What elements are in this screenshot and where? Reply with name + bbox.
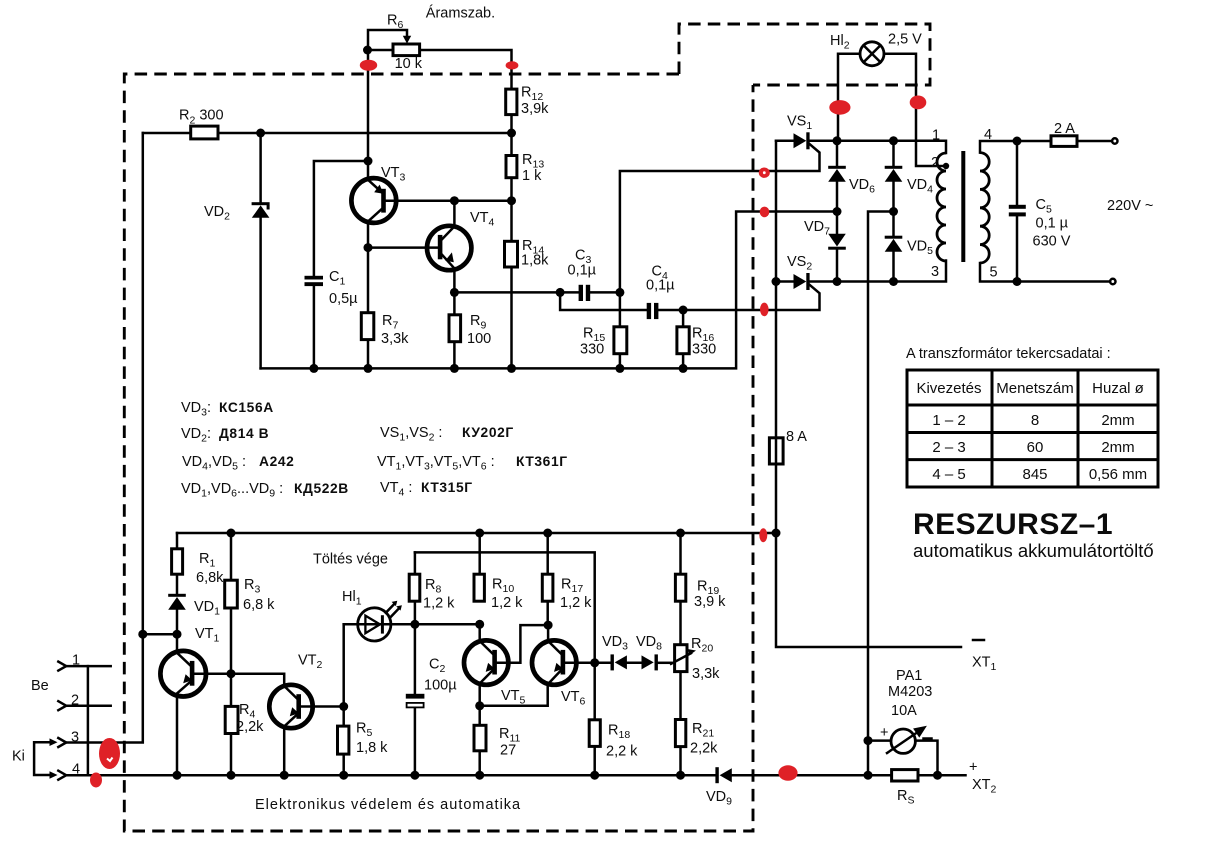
transformer T1 secondary winding (pins 4-5) <box>980 153 989 263</box>
svg-text:КТ361Г: КТ361Г <box>516 454 568 469</box>
resistor R21 <box>675 720 685 747</box>
wire VT3 emitter rail <box>367 50 370 180</box>
resistor R8 <box>409 574 420 601</box>
svg-text:PA1: PA1 <box>896 668 922 684</box>
wire R6 left terminal <box>368 49 393 52</box>
wire R1 column <box>176 533 179 594</box>
red mark: VD6-VD7 line <box>760 207 770 218</box>
wire VD2 branch <box>259 133 262 202</box>
red mark: VD9 output <box>778 765 797 780</box>
node VT1 base/R4 <box>227 669 236 678</box>
svg-text:8: 8 <box>1031 412 1039 429</box>
svg-text:3: 3 <box>931 264 939 280</box>
svg-text:6,8 k: 6,8 k <box>243 597 275 613</box>
node R12 bottom <box>507 129 516 138</box>
node VD7 bottom <box>833 277 842 286</box>
node bus R18 <box>590 771 599 780</box>
mains terminal top <box>1112 138 1117 143</box>
resistor R19 <box>675 574 685 601</box>
transistor VT3 (PNP, emitter up) <box>351 178 396 223</box>
ammeter PA1 <box>887 726 927 754</box>
diode VD1 <box>168 594 186 610</box>
node C1 ground <box>309 364 318 373</box>
wire R20 to R21 <box>679 672 682 776</box>
resistor R9 <box>449 315 461 342</box>
capacitor C3 <box>579 285 591 301</box>
transistor VT2 (PNP) <box>269 685 312 728</box>
transformer data table <box>907 370 1158 487</box>
wire connector common bus <box>87 666 90 775</box>
node C1 branch <box>364 157 373 166</box>
trimmer R20 <box>671 645 696 672</box>
svg-text:2mm: 2mm <box>1101 412 1134 429</box>
node emitters/R11 <box>475 701 484 710</box>
svg-text:automatikus akkumulátortöltő: automatikus akkumulátortöltő <box>913 540 1154 561</box>
wire VT1 emitter lead <box>176 695 179 776</box>
svg-text:1,2 k: 1,2 k <box>423 596 455 612</box>
wire C2 bottom lead <box>414 707 417 775</box>
svg-text:0,56 mm: 0,56 mm <box>1089 466 1147 483</box>
diode VD7 <box>828 234 846 250</box>
node bus VT2 <box>280 771 289 780</box>
svg-text:2,5 V: 2,5 V <box>888 32 922 48</box>
capacitor C1 <box>305 276 324 286</box>
node VD4-VD5 <box>889 207 898 216</box>
wire VT5 base link <box>495 625 548 663</box>
svg-text:A transzformátor tekercsadatai: A transzformátor tekercsadatai : <box>906 346 1111 362</box>
svg-text:VD3:: VD3: <box>181 400 211 419</box>
svg-text:3,9 k: 3,9 k <box>694 594 726 610</box>
wire VD6-VD7 junction <box>836 182 839 234</box>
wire PA1 right lead <box>915 741 937 776</box>
wire rectifier bottom bus <box>810 261 946 282</box>
resistor R5 <box>338 726 349 754</box>
wire C1 bottom lead <box>313 286 316 368</box>
node transformer tap 2 <box>943 163 949 169</box>
wire pin 4 / battery minus bus <box>66 774 715 777</box>
svg-text:Elektronikus védelem és automa: Elektronikus védelem és automatika <box>255 797 521 813</box>
wire VD5 anode lead <box>892 252 895 282</box>
node C3 output <box>615 288 624 297</box>
svg-text:4 – 5: 4 – 5 <box>932 466 965 483</box>
svg-text:0,5µ: 0,5µ <box>329 291 358 307</box>
connector pin chevrons Be/Ki <box>58 662 66 671</box>
node VD1 anode <box>173 630 182 639</box>
wire R19 column <box>679 533 682 645</box>
resistor R7 <box>361 313 374 340</box>
wire Rs to XT2 <box>918 774 966 777</box>
potentiometer R6 (Aramszab. 10k) <box>393 36 420 56</box>
wire R6 right terminal to R12 <box>420 50 512 89</box>
wire VS2 anode lead <box>776 280 794 283</box>
svg-text:1 k: 1 k <box>522 168 542 184</box>
wire VT6 collector lead <box>547 625 550 640</box>
node bus R11 <box>475 771 484 780</box>
node R14 ground <box>507 364 516 373</box>
resistor R4 <box>225 706 238 733</box>
wire C4 input <box>560 292 647 310</box>
wire protection supply bus <box>177 532 776 535</box>
svg-text:0,1 µ: 0,1 µ <box>1036 216 1069 232</box>
transistor VT4 (NPN, base left) <box>427 226 471 270</box>
svg-text:+: + <box>880 725 888 741</box>
wire VD3 feed <box>595 662 611 665</box>
svg-text:10 k: 10 k <box>395 56 423 72</box>
wire VS2 gate line <box>658 285 819 310</box>
svg-text:1,8 k: 1,8 k <box>356 740 388 756</box>
svg-text:1: 1 <box>932 128 940 144</box>
wire VD2 anode to ground bus <box>259 218 262 368</box>
node VT2 base/R5 <box>339 702 348 711</box>
wire transformer pin 5 lead <box>980 263 1110 282</box>
wire R6 wiper loop <box>368 30 407 50</box>
wire C5 column <box>1016 141 1019 205</box>
svg-text:3,3k: 3,3k <box>381 331 409 347</box>
svg-text:RESZURSZ–1: RESZURSZ–1 <box>913 508 1113 541</box>
node VT4 emitter <box>450 288 459 297</box>
LED Hl1 <box>358 601 402 641</box>
svg-text:27: 27 <box>500 743 516 759</box>
svg-text:2,2 k: 2,2 k <box>606 744 638 760</box>
node VD6 top <box>833 136 842 145</box>
fuse 8A <box>769 438 783 464</box>
wire VT3 base line <box>385 199 512 202</box>
wire R12-R13-R14 column <box>510 115 513 369</box>
node VT3 collector <box>364 243 373 252</box>
wire VD3-VD8 link <box>628 662 642 665</box>
svg-text:2,2k: 2,2k <box>236 719 264 735</box>
wire VD8 to R20 <box>658 662 671 665</box>
wire VT3 collector <box>367 222 370 248</box>
node VD5 bottom <box>889 277 898 286</box>
red mark: R6 right branch <box>506 61 519 69</box>
svg-text:Áramszab.: Áramszab. <box>426 5 495 22</box>
svg-text:VT4 :: VT4 : <box>380 480 412 499</box>
wire ground bus of pulse shaper <box>261 212 837 369</box>
svg-text:0,1µ: 0,1µ <box>568 263 597 279</box>
wire Hl1 lead through <box>344 623 389 626</box>
node C4 output <box>679 306 688 315</box>
wire positive line to bus <box>867 741 870 776</box>
node bus R4 <box>227 771 236 780</box>
resistor R18 <box>589 720 600 747</box>
svg-text:2mm: 2mm <box>1101 439 1134 456</box>
svg-text:КС156А: КС156А <box>219 400 274 415</box>
node R16 ground <box>679 364 688 373</box>
node C3 input <box>556 288 565 297</box>
diode VD3 <box>611 654 627 670</box>
resistor R11 <box>474 725 486 751</box>
diode VD9 <box>715 767 731 783</box>
wire VT2 emitter lead <box>283 728 286 776</box>
svg-text:630 V: 630 V <box>1033 234 1071 250</box>
electrolytic capacitor C2 <box>406 694 425 708</box>
Ki arrows <box>50 738 58 746</box>
wire Ki bracket <box>34 742 53 775</box>
svg-text:100: 100 <box>467 331 491 347</box>
svg-text:3: 3 <box>71 730 79 746</box>
wire R4 column <box>230 674 233 776</box>
svg-text:3,9k: 3,9k <box>521 101 549 117</box>
red mark: Hl2 left <box>829 100 850 115</box>
resistor R3 <box>225 580 238 608</box>
node R15 ground <box>615 364 624 373</box>
resistor R1 <box>172 549 183 574</box>
node VS2 anode <box>772 277 781 286</box>
wire VD4 cathode lead <box>892 141 895 166</box>
wire R11 column <box>478 706 481 775</box>
wire R17 column <box>546 533 549 574</box>
svg-text:Kivezetés: Kivezetés <box>916 380 981 397</box>
wire C3 to R15 node <box>590 291 620 294</box>
thyristor VS2 <box>794 273 810 290</box>
svg-text:R2 300: R2 300 <box>179 108 224 127</box>
wire C2 top lead <box>414 624 417 694</box>
node bus C2 <box>410 771 419 780</box>
signal lamp Hl2 <box>860 42 884 66</box>
wire R15 column <box>619 292 622 368</box>
wire bus VD9 to Rs <box>732 774 892 777</box>
wire rectifier top bus <box>810 141 946 153</box>
fuse 2A <box>1051 136 1077 147</box>
diode VD8 <box>642 654 658 670</box>
node VT4 collector <box>450 196 459 205</box>
red mark: VS2 gate <box>760 303 769 317</box>
node R9 ground <box>450 364 459 373</box>
wire cross-coupling bracket R8 to VT6 base <box>415 552 595 662</box>
red mark: VS1 gate <box>759 168 770 178</box>
wire R2 left lead <box>143 132 191 135</box>
label XT1 <box>973 639 984 642</box>
node R17 top <box>543 529 552 538</box>
wire R2 right to R12/R13 node <box>218 132 512 135</box>
node C5 bottom <box>1013 277 1022 286</box>
node R19 top <box>676 529 685 538</box>
svg-text:330: 330 <box>692 342 716 358</box>
svg-text:А242: А242 <box>259 454 294 469</box>
wire transformer pin 4 lead <box>980 141 1051 153</box>
svg-text:5: 5 <box>990 265 998 281</box>
node R13 bottom <box>507 196 516 205</box>
resistor R15 <box>614 327 627 354</box>
svg-text:100µ: 100µ <box>424 678 457 694</box>
wire VT4 emitter <box>453 270 456 293</box>
node bus R5 <box>339 771 348 780</box>
svg-text:КУ202Г: КУ202Г <box>462 425 514 440</box>
red mark: pin 3 blob <box>99 738 120 769</box>
svg-text:2 A: 2 A <box>1054 121 1075 137</box>
resistor R17 <box>542 574 553 601</box>
wire pin 1 line <box>66 665 110 668</box>
resistor R16 <box>677 327 689 354</box>
wire VT6 base lead <box>564 662 595 665</box>
svg-text:Be: Be <box>31 678 49 694</box>
svg-text:1 – 2: 1 – 2 <box>932 412 965 429</box>
svg-text:845: 845 <box>1022 466 1047 483</box>
node R8 bottom <box>410 620 419 629</box>
svg-text:+: + <box>969 760 977 776</box>
wire R9 column <box>453 292 456 368</box>
svg-text:2: 2 <box>931 155 939 171</box>
node R3 top <box>227 529 236 538</box>
wire VT2 base lead <box>300 705 344 708</box>
node VD2 top <box>256 129 265 138</box>
svg-text:Huzal ø: Huzal ø <box>1092 380 1144 397</box>
svg-text:КД522В: КД522В <box>294 481 349 496</box>
transformer T1 primary winding (pins 1-2-3) <box>937 153 946 261</box>
diode VD4 <box>885 166 903 182</box>
transformer core <box>961 151 965 262</box>
diode VD6 <box>828 166 846 182</box>
node Rs-XT2 <box>933 771 942 780</box>
transistor VT6 (PNP) <box>532 640 576 684</box>
wire VT5 emitter lead <box>478 685 481 706</box>
dashed enclosure: Hl2 lamp box <box>679 24 930 85</box>
svg-text:6,8k: 6,8k <box>196 570 224 586</box>
node fuse-bus <box>772 529 781 538</box>
wire C1 top branch <box>314 161 368 276</box>
resistor R14 <box>505 241 518 267</box>
svg-text:8 A: 8 A <box>786 429 807 445</box>
svg-text:1: 1 <box>72 653 80 669</box>
resistor R13 <box>506 156 517 178</box>
red mark: supply bus <box>759 528 767 542</box>
node R6 tap <box>363 46 372 55</box>
wire VT5 collector lead <box>478 624 481 640</box>
svg-text:Д814 В: Д814 В <box>219 426 269 441</box>
wire VS1 anode lead <box>776 140 794 143</box>
wire Hl2 right lead <box>884 54 946 166</box>
svg-text:Ki: Ki <box>12 749 25 765</box>
thyristor VS1 <box>794 132 810 149</box>
svg-text:10A: 10A <box>891 703 917 719</box>
resistor R10 <box>474 574 484 601</box>
dashed enclosure: main electronics box <box>124 74 753 831</box>
wire VS1 gate line <box>620 144 820 292</box>
wire fuse 2A to mains <box>1077 140 1112 143</box>
capacitor C5 <box>1009 205 1026 217</box>
svg-text:2 – 3: 2 – 3 <box>932 439 965 456</box>
red mark: Hl2 right <box>910 96 927 110</box>
wire R18 column <box>593 663 596 775</box>
node C5 top <box>1013 137 1022 146</box>
wire left rail from R2 to pin 3 <box>66 133 142 743</box>
svg-text:0,1µ: 0,1µ <box>646 278 675 294</box>
wire VD7 anode lead <box>836 250 839 282</box>
transistor VT1 (PNP) <box>160 651 206 697</box>
wire PA1 left lead <box>868 739 891 742</box>
svg-text:3,3k: 3,3k <box>692 666 720 682</box>
wire R8 bottom to node <box>414 601 417 624</box>
wire R16 column <box>682 310 685 368</box>
svg-text:1,8k: 1,8k <box>521 253 549 269</box>
wire VT1 base line <box>193 674 284 686</box>
node bus-PA1 <box>864 771 873 780</box>
svg-text:4: 4 <box>72 762 80 778</box>
svg-text:220V ~: 220V ~ <box>1107 198 1153 214</box>
resistor R12 <box>506 89 517 115</box>
svg-text:VT1,VT3,VT5,VT6 :: VT1,VT3,VT5,VT6 : <box>377 454 495 473</box>
wire VT6 emitter link <box>480 685 548 705</box>
wire VT1 collector lead <box>176 634 179 652</box>
wire Hl1 right line to VT5 <box>389 623 480 626</box>
wire Hl2 left lead <box>838 54 860 141</box>
node VT6 base <box>590 658 599 667</box>
diode VD5 <box>885 236 903 252</box>
svg-text:Menetszám: Menetszám <box>996 380 1074 397</box>
node R10 bottom <box>475 620 484 629</box>
wire VD4-VD5 junction <box>892 182 895 236</box>
wire positive sense line <box>868 212 894 741</box>
wire VT4 base link <box>368 246 438 249</box>
svg-text:VD2:: VD2: <box>181 426 211 445</box>
svg-text:2,2k: 2,2k <box>690 741 718 757</box>
node VD6-VD7 <box>833 207 842 216</box>
node rail-PA1 <box>864 736 873 745</box>
resistor Rs <box>892 770 918 781</box>
red mark: pin 4 blob <box>90 773 102 788</box>
wire Hl1 feed / R5 column <box>342 624 345 775</box>
zener diode VD2 <box>252 202 270 218</box>
red mark: R6 left node <box>360 60 377 71</box>
node VD4 top <box>889 136 898 145</box>
wire left rail branch <box>143 633 177 636</box>
svg-text:2: 2 <box>71 693 79 709</box>
svg-text:КТ315Г: КТ315Г <box>421 480 473 495</box>
svg-text:330: 330 <box>580 342 604 358</box>
capacitor C4 <box>647 303 659 319</box>
node R10 top <box>475 529 484 538</box>
svg-text:1,2 k: 1,2 k <box>491 595 523 611</box>
wire negative rail <box>776 141 961 647</box>
svg-text:60: 60 <box>1027 439 1044 456</box>
wire R7 column <box>367 248 370 369</box>
wire emitter line to C3 <box>454 291 578 294</box>
node bus R21 <box>676 771 685 780</box>
wire R3 column <box>230 533 233 674</box>
transistor VT5 (PNP) <box>464 640 508 684</box>
mains terminal bottom <box>1110 279 1115 284</box>
node VT6 collector <box>544 621 553 630</box>
wire pin 2 line <box>66 704 110 707</box>
wire R8 top lead <box>414 552 417 574</box>
resistor R2 <box>191 126 218 139</box>
node bus VT1 <box>173 771 182 780</box>
svg-text:M4203: M4203 <box>888 684 932 700</box>
svg-text:1,2 k: 1,2 k <box>560 595 592 611</box>
wire R10 column <box>478 533 481 601</box>
svg-text:4: 4 <box>984 127 992 143</box>
wire R17 bottom lead <box>546 601 549 625</box>
wire VD1 anode to node <box>176 610 179 634</box>
node left rail branch <box>138 630 147 639</box>
svg-text:Töltés vége: Töltés vége <box>313 552 388 568</box>
wire VT4 collector <box>453 201 456 226</box>
node R7 ground <box>364 364 373 373</box>
wire C5 bottom lead <box>1016 216 1019 281</box>
wire VD6 cathode lead <box>836 141 839 166</box>
